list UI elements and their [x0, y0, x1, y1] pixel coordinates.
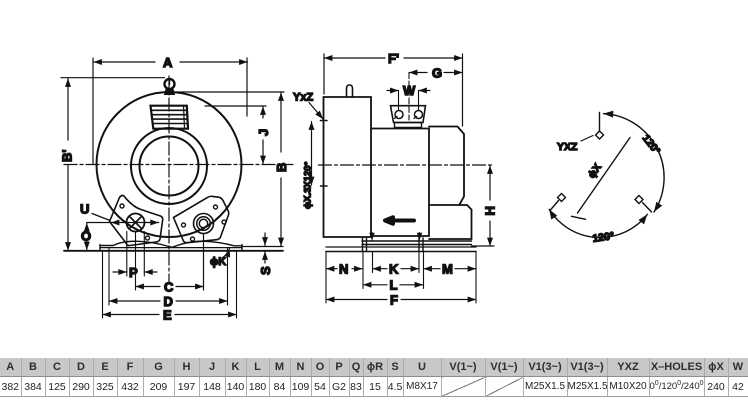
svg-text:G: G: [432, 66, 442, 81]
flange strip bottom line: [362, 244, 472, 246]
dimension O line: [81, 223, 91, 250]
svg-text:P: P: [129, 265, 138, 280]
svg-text:O: O: [81, 229, 91, 244]
side base top line: [326, 246, 476, 248]
dimension W line: [387, 83, 430, 98]
dimension F' line: [324, 51, 463, 66]
svg-text:L: L: [390, 278, 398, 293]
dimension E line: [103, 308, 237, 323]
flange strip top line: [362, 240, 472, 242]
right port rings: [194, 214, 214, 234]
left foot plate bolt hole 1: [120, 204, 124, 208]
svg-text:C: C: [164, 280, 174, 295]
label U with leader: [80, 202, 110, 221]
dimension A left extension line: [92, 58, 94, 164]
base plate top right extension for S and B: [242, 246, 283, 248]
terminal box: [391, 106, 426, 128]
extension line from circle top to B: [176, 91, 284, 93]
side base bottom line: [326, 251, 476, 253]
dimension G line: [409, 66, 463, 81]
right hole extension line: [643, 203, 652, 213]
silencer block: [429, 127, 464, 205]
E extension lines: [103, 252, 237, 318]
base plate left edge: [100, 245, 242, 251]
flange foot left pair: [363, 238, 367, 251]
right foot plate bolt hole 4: [191, 237, 195, 241]
svg-text:F': F': [388, 51, 399, 66]
base plate bottom line extended: [64, 250, 283, 252]
front view inner ring inner circle: [140, 137, 199, 196]
label phi-K with leader: [210, 249, 230, 269]
svg-text:N: N: [339, 262, 348, 277]
front view vertical centerline: [168, 76, 170, 284]
dimension S line: [258, 233, 273, 275]
svg-text:ϕK: ϕK: [210, 256, 226, 268]
right foot plate bolt hole 1: [182, 223, 186, 227]
front view main circle: [97, 92, 242, 237]
dimension K line: [373, 262, 420, 277]
F'/G right extension line: [462, 54, 464, 126]
svg-text:K: K: [389, 262, 399, 277]
base plate top line: [100, 247, 242, 249]
dimension L line: [363, 278, 423, 293]
dimension H line: [483, 166, 498, 247]
arc 120 right: [603, 114, 664, 212]
svg-text:B: B: [274, 163, 289, 172]
svg-text:A: A: [163, 55, 173, 70]
phiX diameter end bar: [572, 216, 586, 219]
lifting eyelet: [165, 79, 175, 95]
extension line from trapezoid top to J: [205, 105, 266, 107]
C left extension line: [135, 232, 137, 290]
svg-text:ϕX.3X120°: ϕX.3X120°: [303, 161, 314, 209]
right foot plate bolt hole 3: [222, 220, 226, 224]
H bottom extension line: [472, 245, 495, 247]
svg-text:S: S: [258, 266, 273, 275]
dimension P line: [113, 265, 157, 280]
YxZ flange hole marks on motor left edge: [321, 121, 328, 187]
right foot plate bolt hole 2: [214, 205, 218, 209]
svg-text:E: E: [163, 308, 172, 323]
YxZ label and leader: [293, 92, 323, 120]
dimension table: [0, 358, 748, 397]
label YXZ: [557, 136, 593, 154]
dimension D line: [109, 294, 228, 309]
left foot plate bolt hole 2: [146, 236, 150, 240]
O top extension line: [87, 222, 112, 224]
dimension J line: [256, 107, 271, 165]
svg-text:H: H: [483, 206, 498, 215]
motor top tab: [347, 85, 353, 97]
svg-text:YXZ: YXZ: [557, 141, 578, 153]
extension line from eyelet top to B': [61, 77, 165, 79]
W extension lines: [399, 91, 419, 110]
svg-text:YxZ: YxZ: [293, 92, 313, 104]
arc 120 bottom: [549, 209, 647, 237]
D extension lines: [109, 248, 228, 305]
front view horizontal centerline: [64, 164, 293, 166]
flow arrow: [385, 217, 414, 224]
svg-text:J: J: [256, 129, 271, 136]
svg-text:F: F: [390, 293, 398, 308]
muffler grill trapezoid: [151, 106, 189, 129]
discharge box: [429, 205, 472, 239]
side view centerline: [319, 164, 495, 166]
flange foot right pair: [419, 238, 423, 251]
svg-text:U: U: [80, 202, 89, 217]
top hole extension line: [599, 113, 601, 131]
right port center extension line down: [203, 234, 205, 291]
phiX diameter line: [578, 138, 631, 214]
dimension M line: [424, 262, 477, 277]
dimension N line: [326, 262, 363, 277]
dimension B line: [274, 93, 289, 247]
dimension A right extension line: [246, 58, 248, 116]
bolt hole right: [635, 196, 643, 204]
dimension C line: [136, 280, 204, 295]
bolt hole top: [596, 131, 604, 139]
P extension lines: [127, 232, 145, 277]
dimension F line: [326, 293, 476, 308]
svg-text:B': B': [60, 150, 75, 162]
terminal box centerline: [408, 73, 410, 121]
left foot plate: [110, 196, 163, 246]
svg-text:M: M: [442, 262, 453, 277]
front view inner ring outer circle: [131, 128, 207, 204]
svg-text:W: W: [403, 83, 416, 98]
flange tick arrows: [371, 233, 373, 241]
bolt hole left: [558, 194, 566, 202]
dimension A line: [94, 55, 248, 70]
svg-text:120°: 120°: [592, 230, 615, 245]
F' left extension line: [323, 54, 325, 94]
dimension B' line: [60, 79, 75, 251]
left hole extension line: [550, 201, 559, 211]
right foot plate: [174, 196, 229, 242]
mid blower block: [371, 129, 429, 237]
left port horizontal arrow line: [111, 222, 159, 224]
phiX 3x120 dimension line: [303, 122, 314, 210]
side dim extension lines below base: [325, 252, 327, 303]
left port circle with cross: [127, 214, 145, 232]
base plate wavy top contour: [100, 241, 242, 247]
motor block: [324, 97, 372, 237]
